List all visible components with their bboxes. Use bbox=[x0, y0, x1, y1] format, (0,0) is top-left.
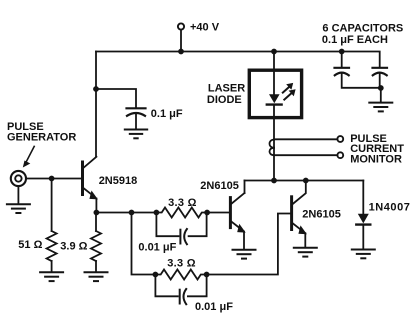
current pickup loop upper bbox=[270, 140, 275, 148]
ground cap bank bbox=[369, 103, 392, 112]
node Q1 emitter bbox=[94, 210, 100, 216]
ground Q2 bbox=[233, 250, 256, 259]
capacitor 0.01uF (lower) bbox=[180, 289, 187, 304]
svg-text:2N5918: 2N5918 bbox=[99, 175, 138, 187]
node R2 left bbox=[154, 210, 160, 216]
BNC connector inner bbox=[15, 175, 21, 181]
+40 V terminal bbox=[178, 23, 184, 29]
wire monitor upper lead bbox=[274, 138, 337, 140]
wire bypass branch bbox=[96, 89, 136, 108]
wire collector bus bbox=[245, 180, 364, 182]
wire +40V supply rail bbox=[96, 51, 342, 53]
diode 1N4007 bbox=[356, 214, 370, 225]
resistor 51 ohm bbox=[47, 179, 57, 272]
wire terminal to rail bbox=[180, 30, 182, 52]
resistor 3.3 ohm (lower) bbox=[155, 270, 206, 280]
wire row1 down to row2 bbox=[132, 213, 156, 275]
ground 1N4007 bbox=[352, 250, 375, 259]
wire right bank cap bottom bbox=[379, 74, 381, 88]
ground 3.9 ohm bbox=[85, 272, 108, 281]
svg-text:DIODE: DIODE bbox=[207, 94, 242, 106]
wire Q2 emitter to ground bbox=[243, 232, 245, 250]
node 51ohm tap bbox=[49, 176, 55, 182]
terminal monitor upper bbox=[337, 136, 343, 142]
transistor Q2 2N6105 (left) bbox=[230, 193, 245, 233]
node R2 right bbox=[204, 210, 210, 216]
transistor Q3 2N6105 (right) bbox=[292, 181, 307, 235]
wire row2 to Q3 base bbox=[207, 214, 291, 275]
svg-text:2N6105: 2N6105 bbox=[302, 208, 341, 220]
svg-text:3.3 Ω: 3.3 Ω bbox=[167, 257, 196, 269]
node rail/laser branch bbox=[271, 49, 277, 55]
node R3 right bbox=[204, 272, 210, 278]
svg-text:0.1 μF: 0.1 μF bbox=[151, 108, 183, 120]
wire laser diode branch bbox=[273, 52, 275, 95]
svg-text:MONITOR: MONITOR bbox=[350, 153, 402, 165]
wire laser cathode down bbox=[273, 106, 275, 181]
wire BNC to base bbox=[26, 178, 81, 180]
current pickup loop lower bbox=[270, 148, 275, 155]
svg-text:6 CAPACITORS: 6 CAPACITORS bbox=[322, 23, 403, 35]
wire left bank cap bottom bbox=[342, 74, 381, 88]
svg-text:3.9 Ω: 3.9 Ω bbox=[60, 241, 87, 253]
svg-text:0.01 μF: 0.01 μF bbox=[195, 301, 233, 313]
svg-text:0.1 μF EACH: 0.1 μF EACH bbox=[322, 34, 388, 46]
wire cap1 bracket right bbox=[189, 213, 207, 237]
wire Q3 emitter to ground bbox=[304, 233, 306, 247]
terminal monitor lower bbox=[337, 152, 343, 158]
wire rail to right capacitor bbox=[342, 52, 380, 68]
wire row1 to Q2 base bbox=[207, 212, 229, 214]
wire Q2 collector riser bbox=[244, 181, 246, 194]
wire left vertical (collector feed) bbox=[95, 52, 97, 157]
node rail/+40V bbox=[178, 49, 184, 55]
wire left bank cap top bbox=[341, 52, 343, 68]
capacitor bank right bbox=[373, 68, 388, 76]
laser light arrow 1 bbox=[283, 83, 293, 93]
laser diode package box bbox=[249, 70, 301, 117]
transistor Q1 2N5918 bbox=[83, 157, 98, 200]
capacitor 0.1uF bypass bbox=[127, 108, 146, 116]
wire cap to ground bbox=[135, 115, 137, 129]
node row1 split bbox=[129, 210, 135, 216]
wire diode branch bbox=[362, 181, 364, 214]
node R3 left bbox=[153, 272, 159, 278]
ground Q3 bbox=[294, 248, 317, 257]
wire cap2 bracket right bbox=[188, 275, 207, 297]
svg-text:GENERATOR: GENERATOR bbox=[7, 131, 76, 143]
wire to bank ground bbox=[380, 88, 382, 102]
node bypass tap bbox=[93, 86, 99, 92]
wire BNC to ground bbox=[17, 186, 19, 203]
node rail/cap bank bbox=[339, 49, 345, 55]
node Q3 collector bbox=[303, 178, 309, 184]
resistor 3.9 ohm bbox=[91, 213, 101, 272]
wire monitor lower lead bbox=[274, 154, 337, 156]
resistor 3.3 ohm (upper) bbox=[156, 208, 207, 218]
laser diode D1 bbox=[267, 94, 282, 104]
ground 51 ohm bbox=[40, 272, 63, 281]
svg-text:3.3 Ω: 3.3 Ω bbox=[168, 197, 197, 209]
svg-text:+40 V: +40 V bbox=[190, 22, 220, 34]
wire cap1 bracket left bbox=[156, 213, 178, 237]
ground bypass cap bbox=[125, 130, 147, 139]
capacitor 0.01uF (upper) bbox=[180, 229, 187, 244]
svg-text:51 Ω: 51 Ω bbox=[18, 239, 42, 251]
wire diode to ground bbox=[362, 226, 364, 249]
svg-text:LASER: LASER bbox=[208, 83, 245, 95]
svg-text:2N6105: 2N6105 bbox=[200, 180, 239, 192]
capacitor bank left bbox=[335, 68, 350, 76]
BNC connector outer bbox=[11, 171, 26, 186]
ground BNC bbox=[7, 204, 30, 213]
node laser/collector bbox=[271, 178, 277, 184]
wire Q1 emitter down bbox=[95, 199, 97, 213]
node cap bank ground bbox=[378, 85, 384, 91]
wire emitter row bbox=[96, 212, 156, 214]
wire cap2 bracket left bbox=[155, 275, 177, 297]
laser light arrow 2 bbox=[284, 89, 295, 99]
svg-text:0.01 μF: 0.01 μF bbox=[138, 242, 176, 254]
svg-text:1N4007: 1N4007 bbox=[369, 201, 411, 213]
pointer arrow to BNC bbox=[23, 146, 34, 167]
